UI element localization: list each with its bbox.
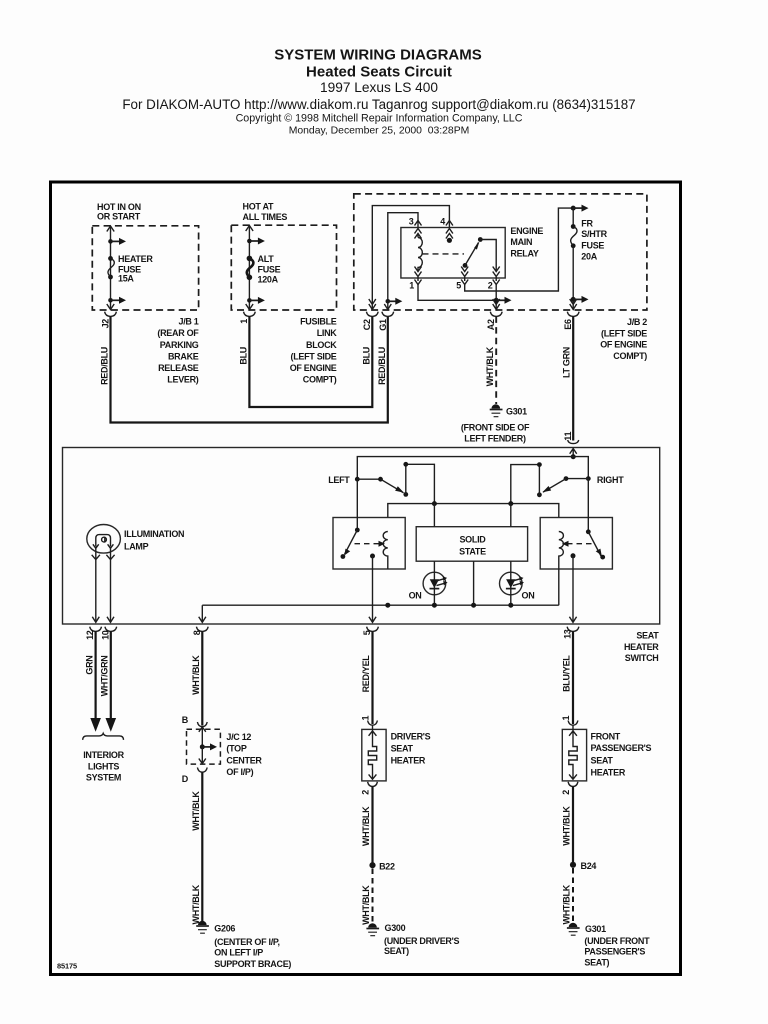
svg-text:SEAT: SEAT — [391, 744, 414, 754]
svg-text:WHT/GRN: WHT/GRN — [100, 656, 110, 697]
svg-text:SEAT): SEAT) — [584, 957, 609, 967]
LED left (ON indicator) — [423, 561, 448, 605]
svg-text:G206: G206 — [214, 924, 235, 934]
svg-text:OF I/P): OF I/P) — [226, 767, 253, 777]
wire WHT/GRN to interior lights — [110, 631, 112, 720]
wire pin4 feed from C2 riser — [372, 206, 449, 310]
left relay switch arm — [356, 479, 358, 530]
svg-text:BLU: BLU — [362, 347, 372, 365]
wire LT GRN from E6 to seat heater switch pin 11 — [572, 316, 574, 440]
svg-text:J/B 1: J/B 1 — [178, 317, 198, 327]
wire WHT/BLK B22 to G300 (dashed) — [372, 869, 374, 924]
svg-text:OF ENGINE: OF ENGINE — [600, 340, 647, 350]
lamp connector chevrons — [92, 555, 115, 560]
left relay coil — [383, 532, 388, 570]
svg-text:RIGHT: RIGHT — [597, 475, 624, 485]
right relay coil — [559, 532, 564, 606]
svg-text:COMPT): COMPT) — [613, 351, 647, 361]
fuse ALT FUSE 120A — [247, 256, 253, 262]
svg-text:FUSIBLE: FUSIBLE — [300, 317, 337, 327]
connector cup J2 — [105, 312, 117, 317]
page border frame — [51, 182, 681, 975]
svg-text:(CENTER OF I/P,: (CENTER OF I/P, — [214, 937, 279, 947]
relay coil — [418, 234, 422, 272]
svg-text:(LEFT SIDE: (LEFT SIDE — [601, 328, 647, 338]
wire RED/YEL pin5 to driver heater — [371, 631, 373, 724]
svg-text:ALL TIMES: ALL TIMES — [243, 212, 288, 222]
svg-text:SUPPORT BRACE): SUPPORT BRACE) — [214, 959, 291, 969]
svg-text:FUSE: FUSE — [258, 264, 281, 274]
ground G301 under seat — [567, 923, 580, 936]
seat heater switch (box) — [63, 448, 660, 625]
svg-text:11: 11 — [563, 432, 573, 441]
svg-text:Copyright © 1998 Mitchell Repa: Copyright © 1998 Mitchell Repair Informa… — [236, 113, 523, 125]
svg-text:HEATER: HEATER — [591, 767, 626, 777]
svg-text:WHT/BLK: WHT/BLK — [191, 791, 201, 831]
svg-text:10: 10 — [100, 630, 110, 640]
splice B22 — [369, 862, 375, 868]
svg-text:(LEFT SIDE: (LEFT SIDE — [291, 351, 337, 361]
svg-text:C2: C2 — [362, 319, 372, 330]
svg-text:1: 1 — [409, 281, 414, 291]
svg-text:3: 3 — [409, 217, 414, 227]
svg-text:LT GRN: LT GRN — [561, 347, 571, 378]
ground G206 — [196, 921, 209, 934]
pin 2 driver heater — [368, 782, 378, 787]
svg-text:ON: ON — [522, 591, 535, 601]
connector A2 at J/B2 — [493, 299, 500, 310]
svg-text:G301: G301 — [506, 407, 527, 417]
svg-text:WHT/BLK: WHT/BLK — [361, 885, 371, 925]
svg-text:5: 5 — [456, 281, 461, 291]
svg-text:(REAR OF: (REAR OF — [157, 328, 199, 338]
wire power rail to both switches — [357, 457, 588, 480]
right relay output node — [571, 553, 576, 558]
svg-text:FR: FR — [581, 219, 593, 229]
svg-text:Heated Seats Circuit: Heated Seats Circuit — [306, 64, 452, 81]
connector cup pin 1 — [244, 312, 256, 317]
wire: feed through heater fuse — [110, 227, 112, 310]
svg-text:ILLUMINATION: ILLUMINATION — [124, 529, 184, 539]
svg-text:WHT/BLK: WHT/BLK — [361, 806, 371, 846]
connector C2 at J/B2 — [369, 299, 376, 310]
wire coil rail — [388, 504, 559, 518]
junction block J/B 1 (dashed box) — [92, 226, 198, 310]
node at FR fuse top — [571, 206, 576, 211]
svg-text:(TOP: (TOP — [226, 744, 246, 754]
svg-text:OR START: OR START — [97, 212, 141, 222]
svg-text:HEATER: HEATER — [118, 254, 153, 264]
node junction at A2 riser — [494, 298, 499, 303]
svg-text:2: 2 — [361, 790, 371, 795]
brace to interior lights system — [83, 733, 124, 740]
arrow up at top of fuse wire — [107, 226, 114, 232]
wire pin 8 drop — [199, 605, 206, 622]
svg-text:13: 13 — [563, 629, 573, 639]
wire WHT/BLK driver heater to B22 — [371, 787, 373, 866]
svg-text:S/HTR: S/HTR — [581, 229, 607, 239]
svg-text:1997 Lexus LS 400: 1997 Lexus LS 400 — [320, 80, 438, 95]
svg-text:INTERIOR: INTERIOR — [83, 750, 124, 760]
svg-text:12: 12 — [85, 630, 95, 640]
svg-text:RED/YEL: RED/YEL — [361, 655, 371, 693]
relay right (box) — [540, 518, 612, 570]
solid state module (box) — [416, 527, 527, 562]
wire BLU/YEL output to box bottom — [569, 556, 576, 623]
pin 3 connector arrows — [415, 221, 422, 226]
svg-text:120A: 120A — [258, 274, 279, 284]
wire: feed through ALT fuse — [248, 226, 250, 310]
svg-text:BLOCK: BLOCK — [306, 340, 337, 350]
lamp illumination — [87, 525, 121, 554]
splice B24 — [570, 862, 576, 868]
label J/B 2 (LEFT SIDE OF ENGINE COMPT) — [600, 317, 647, 361]
svg-text:HOT AT: HOT AT — [243, 202, 274, 212]
label J/B 1 (REAR OF PARKING BRAKE RELEASE LEVER) — [157, 317, 199, 385]
label HOT AT ALL TIMES — [243, 202, 288, 223]
svg-text:J/B 2: J/B 2 — [627, 317, 647, 327]
connector E6 at J/B2 — [570, 299, 577, 310]
wire RED/BLU from J2 to G1 — [111, 316, 388, 422]
svg-text:DRIVER'S: DRIVER'S — [391, 732, 431, 742]
svg-text:G1: G1 — [378, 319, 388, 331]
pin 4 connector arrows — [446, 221, 453, 226]
svg-text:D: D — [182, 774, 189, 784]
wire WHT/BLK from A2 to G301 (dashed) — [495, 316, 497, 404]
wire left switch output riser — [406, 464, 435, 503]
wire BLU/YEL pin13 to passenger heater — [572, 631, 574, 724]
connector cups at switch box bottom — [90, 627, 102, 632]
wire FR fuse feed — [572, 208, 574, 226]
arrow up at top of ALT wire — [246, 226, 253, 232]
wire BLU from fusible link to C2 — [249, 316, 372, 407]
right relay switch arm — [587, 479, 589, 532]
wire pin2 down to node — [495, 285, 497, 311]
svg-text:SWITCH: SWITCH — [625, 653, 659, 663]
svg-text:G301: G301 — [585, 924, 606, 934]
node: branch above ALT fuse — [247, 239, 252, 244]
wire right switch output riser — [511, 465, 540, 504]
relay switch arm — [463, 263, 468, 268]
svg-text:SOLID: SOLID — [459, 535, 486, 545]
wire SS center stub — [473, 561, 475, 605]
node branch above E6 — [571, 297, 576, 302]
label INTERIOR LIGHTS SYSTEM — [83, 750, 124, 783]
svg-text:ON: ON — [409, 591, 422, 601]
heater element zigzag — [569, 744, 577, 767]
mechanical linkage (dashed) — [423, 253, 465, 255]
arrow down at fusible link exit — [246, 304, 253, 310]
svg-text:2: 2 — [561, 790, 571, 795]
svg-text:E6: E6 — [563, 319, 573, 330]
relay left (box) — [333, 518, 405, 570]
pin 5 connector arrows — [461, 267, 468, 277]
pin 2 passenger heater — [568, 782, 578, 787]
svg-text:RELEASE: RELEASE — [158, 363, 199, 373]
svg-text:WHT/BLK: WHT/BLK — [191, 655, 201, 695]
label HOT IN ON OR START — [97, 202, 141, 222]
svg-text:CENTER: CENTER — [226, 755, 262, 765]
svg-text:WHT/BLK: WHT/BLK — [485, 346, 495, 386]
svg-text:1: 1 — [239, 319, 249, 324]
svg-text:PASSENGER'S: PASSENGER'S — [584, 947, 645, 957]
wire switch common to pin 2 — [480, 240, 496, 272]
svg-text:BLU/YEL: BLU/YEL — [562, 655, 572, 692]
svg-text:(FRONT SIDE OF: (FRONT SIDE OF — [461, 423, 530, 433]
svg-text:B: B — [182, 715, 189, 725]
junction block J/B 2 (dashed box) — [354, 194, 647, 310]
title header — [122, 47, 635, 137]
left relay output node — [370, 554, 375, 559]
svg-text:1: 1 — [561, 716, 571, 721]
heater element zigzag — [368, 744, 376, 767]
svg-text:SEAT: SEAT — [636, 631, 659, 641]
left relay linkage (dashed) — [355, 543, 382, 545]
ground G301 (front side of left fender) — [490, 404, 503, 417]
svg-text:SYSTEM WIRING DIAGRAMS: SYSTEM WIRING DIAGRAMS — [274, 47, 482, 64]
wire GRN to interior lights — [94, 631, 96, 720]
svg-text:Monday, December 25, 2000 03:: Monday, December 25, 2000 03:28PM — [289, 126, 470, 137]
resistor R2 FRONT PASSENGER'S SEAT HEATER (box) — [562, 729, 586, 781]
wire pin1 to junction under pin2 — [418, 285, 496, 301]
svg-text:ENGINE: ENGINE — [510, 226, 543, 236]
resistor R1 DRIVER'S SEAT HEATER (box) — [362, 729, 386, 781]
svg-text:COMPT): COMPT) — [303, 375, 337, 385]
wire WHT/BLK passenger heater to B24 — [572, 787, 574, 865]
svg-text:RED/BLU: RED/BLU — [99, 347, 109, 385]
svg-text:STATE: STATE — [459, 546, 486, 556]
label J/C 12 (TOP CENTER OF I/P) — [226, 732, 262, 777]
wire FR fuse to E6 — [572, 246, 574, 310]
pin 2 connector arrows — [493, 267, 500, 277]
wire ground rail — [202, 604, 559, 606]
svg-text:RED/BLU: RED/BLU — [377, 347, 387, 385]
svg-text:ALT: ALT — [258, 254, 275, 264]
wire pin5 to FR S/HTR fuse — [465, 208, 574, 291]
svg-text:RELAY: RELAY — [510, 249, 538, 259]
svg-text:20A: 20A — [581, 252, 597, 262]
label FUSIBLE LINK BLOCK (LEFT SIDE OF ENGINE COMPT) — [290, 317, 338, 385]
svg-text:G300: G300 — [385, 923, 406, 933]
svg-text:HOT IN ON: HOT IN ON — [97, 202, 141, 212]
wire WHT/BLK B24 to G301 (dashed) — [572, 868, 574, 923]
lamp wires to box bottom — [96, 548, 111, 622]
relay U1 ENGINE MAIN RELAY (box) — [401, 228, 505, 279]
svg-text:J2: J2 — [101, 319, 111, 329]
wire pin3 feed from G1 riser — [388, 213, 418, 310]
svg-text:A2: A2 — [486, 319, 496, 330]
svg-text:OF ENGINE: OF ENGINE — [290, 363, 337, 373]
svg-text:2: 2 — [488, 281, 493, 291]
svg-text:SYSTEM: SYSTEM — [86, 773, 121, 783]
node pin11 junction — [571, 454, 576, 459]
pin 11 cup — [568, 440, 579, 444]
LED right (ON indicator) — [500, 561, 525, 605]
svg-text:LEFT: LEFT — [328, 475, 350, 485]
svg-text:MAIN: MAIN — [510, 237, 532, 247]
svg-text:WHT/BLK: WHT/BLK — [561, 806, 571, 846]
svg-text:BRAKE: BRAKE — [168, 351, 199, 361]
wire RED/YEL output to box bottom — [369, 556, 376, 623]
svg-text:85175: 85175 — [57, 962, 77, 971]
svg-text:5: 5 — [362, 630, 372, 635]
svg-text:PASSENGER'S: PASSENGER'S — [591, 743, 652, 753]
svg-text:ON LEFT I/P: ON LEFT I/P — [214, 948, 263, 958]
arrow down at J2 exit — [107, 304, 114, 310]
pin 1 connector arrows — [415, 267, 422, 277]
wire WHT/BLK from J/C12 to G206 — [201, 772, 203, 921]
fusible link block (dashed box) — [231, 225, 336, 310]
svg-text:LEFT FENDER): LEFT FENDER) — [464, 433, 526, 443]
svg-text:FRONT: FRONT — [591, 731, 621, 741]
svg-text:J/C 12: J/C 12 — [226, 732, 251, 742]
svg-text:PARKING: PARKING — [160, 340, 199, 350]
svg-text:WHT/BLK: WHT/BLK — [191, 884, 201, 924]
pin 11 entry arrow — [570, 449, 577, 458]
svg-text:For DIAKOM-AUTO http://www.dia: For DIAKOM-AUTO http://www.diakom.ru Tag… — [122, 97, 635, 112]
svg-text:FUSE: FUSE — [581, 241, 604, 251]
junction connector J/C 12 (dashed box) — [197, 722, 207, 727]
node: branch below ALT fuse — [247, 298, 252, 303]
svg-text:B24: B24 — [581, 861, 597, 871]
svg-text:LINK: LINK — [317, 328, 338, 338]
svg-text:LEVER): LEVER) — [167, 375, 199, 385]
svg-text:LIGHTS: LIGHTS — [88, 761, 119, 771]
right relay linkage (dashed) — [566, 543, 592, 545]
wire WHT/BLK pin8 to J/C12 — [201, 631, 203, 725]
svg-text:SEAT: SEAT — [591, 755, 614, 765]
relay pin 4 internal lead to switch common — [447, 238, 452, 243]
svg-text:GRN: GRN — [84, 656, 94, 675]
node: branch below heater fuse — [108, 298, 113, 303]
svg-text:15A: 15A — [118, 273, 134, 283]
svg-text:(UNDER FRONT: (UNDER FRONT — [584, 936, 650, 946]
svg-text:(UNDER DRIVER'S: (UNDER DRIVER'S — [384, 936, 459, 946]
svg-text:B22: B22 — [379, 862, 395, 872]
svg-text:1: 1 — [361, 716, 371, 721]
svg-text:BLU: BLU — [239, 347, 249, 365]
ground G300 — [366, 923, 379, 935]
connector G1 at J/B2 — [386, 299, 391, 304]
fuse HEATER FUSE 15A — [108, 256, 113, 261]
svg-text:LAMP: LAMP — [124, 542, 149, 552]
fuse FR S/HTR FUSE 20A — [571, 224, 576, 229]
svg-text:HEATER: HEATER — [624, 642, 659, 652]
node: branch above heater fuse — [108, 239, 113, 244]
svg-text:HEATER: HEATER — [391, 756, 426, 766]
wire SS risers — [434, 504, 510, 527]
svg-text:4: 4 — [440, 217, 445, 227]
svg-text:WHT/BLK: WHT/BLK — [561, 884, 571, 924]
svg-text:SEAT): SEAT) — [384, 946, 409, 956]
svg-text:8: 8 — [192, 630, 202, 635]
